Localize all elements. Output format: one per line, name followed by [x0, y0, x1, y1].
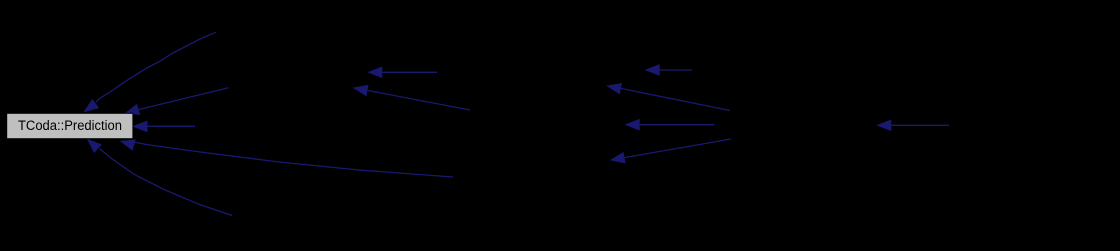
edge horizontal into node — [134, 121, 196, 131]
edge top arc into node — [85, 32, 216, 111]
edge mid diagonal up-left — [608, 84, 731, 111]
edge bottom curve into node — [88, 140, 232, 216]
edge mid short horizontal — [646, 65, 692, 75]
edge col1 diagonal — [354, 85, 470, 110]
svg-text:TCoda::Prediction: TCoda::Prediction — [18, 118, 122, 134]
edge col1 horizontal — [369, 67, 438, 77]
node TCoda::Prediction — [7, 113, 133, 138]
edge upper diagonal into node corner — [126, 88, 229, 115]
edge mid diagonal down-left — [611, 139, 731, 163]
edge long swoop into node — [121, 140, 453, 177]
edge mid long horizontal — [626, 120, 715, 130]
edge far right horizontal — [878, 120, 949, 130]
